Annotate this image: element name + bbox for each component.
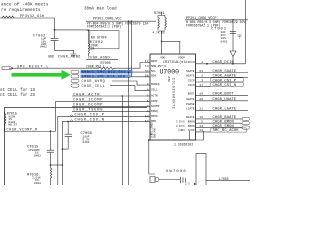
svg-text:PHASE: PHASE <box>186 103 195 106</box>
svg-text:CHGR_OCOMP: CHGR_OCOMP <box>73 104 103 108</box>
svg-text:CHGR_TSENS: CHGR_TSENS <box>73 109 103 113</box>
svg-text:SDA: SDA <box>151 75 156 78</box>
svg-text:CHGR_BOOT: CHGR_BOOT <box>213 93 235 97</box>
svg-text:(GND): (GND) <box>178 129 186 132</box>
svg-text:PP3V42_G3H: PP3V42_G3H <box>20 15 44 19</box>
svg-text:SMC_RESET_L: SMC_RESET_L <box>17 65 49 69</box>
svg-text:13: 13 <box>145 65 149 68</box>
svg-text:SMBUS_SMC_B1A_SDA: SMBUS_SMC_B1A_SDA <box>82 76 126 80</box>
svg-text:BOOT: BOOT <box>188 93 195 96</box>
svg-text:CHGR_BMON: CHGR_BMON <box>213 121 234 125</box>
svg-text:CHGR_DCIN: CHGR_DCIN <box>213 61 234 65</box>
svg-text:ance of -40K meets: ance of -40K meets <box>1 3 49 8</box>
svg-text:3CMB: 3CMB <box>167 76 170 82</box>
svg-text:30mA max load: 30mA max load <box>84 7 117 12</box>
svg-text:CHGR_LGATE: CHGR_LGATE <box>213 108 237 112</box>
svg-text:VDD: VDD <box>160 57 165 60</box>
svg-text:XW7000: XW7000 <box>166 170 187 174</box>
svg-text:0402: 0402 <box>221 40 228 43</box>
svg-text:57: 57 <box>145 70 149 73</box>
svg-text:1%: 1% <box>90 47 94 51</box>
svg-text:CHGR_AGND: CHGR_AGND <box>88 57 110 61</box>
svg-text:CHGR_VCOMP_R: CHGR_VCOMP_R <box>7 129 38 133</box>
svg-text:CHGR_RST_L: CHGR_RST_L <box>86 65 105 69</box>
svg-text:CSIN: CSIN <box>188 84 195 87</box>
svg-text:nt CELL for 2S: nt CELL for 2S <box>0 93 36 98</box>
svg-text:CHGR_CSI_P: CHGR_CSI_P <box>213 79 237 83</box>
svg-text:CSIP: CSIP <box>188 79 195 82</box>
svg-text:SCOMP: SCOMP <box>151 105 160 108</box>
svg-text:SCL: SCL <box>151 70 156 73</box>
svg-text:VDDP: VDDP <box>178 57 185 60</box>
svg-text:ISL6259AHRTZ: ISL6259AHRTZ <box>172 78 176 109</box>
svg-text:BMON: BMON <box>188 121 195 124</box>
svg-text:0402: 0402 <box>40 46 47 49</box>
svg-text:ACTR: ACTR <box>151 94 158 97</box>
svg-text:PROG: PROG <box>151 115 158 118</box>
svg-text:NRST: NRST <box>151 60 158 63</box>
svg-text:CHGR_NVRQ: CHGR_NVRQ <box>82 80 106 84</box>
svg-text:LGATE: LGATE <box>186 108 195 111</box>
svg-text:COMP: COMP <box>151 100 158 103</box>
svg-text:0402: 0402 <box>34 154 41 157</box>
svg-text:3.3V/S: 3.3V/S <box>176 121 185 124</box>
svg-text:9: 9 <box>147 83 149 86</box>
svg-text:CHGR_SGATE: CHGR_SGATE <box>213 70 237 74</box>
svg-text:NO_ST: NO_ST <box>8 124 17 127</box>
svg-text:FREQ: FREQ <box>151 110 158 113</box>
svg-text:CHGR_UGATE: CHGR_UGATE <box>213 98 237 102</box>
svg-text:U7000: U7000 <box>160 69 180 76</box>
svg-text:0402: 0402 <box>83 141 90 144</box>
svg-text:SMBUS_SMC_B1A_SCL: SMBUS_SMC_B1A_SCL <box>82 71 127 75</box>
svg-text:NO STUFF: NO STUFF <box>91 36 107 40</box>
svg-text:L7650: L7650 <box>219 177 229 181</box>
svg-text:56: 56 <box>145 75 149 78</box>
svg-text:0402: 0402 <box>34 182 41 185</box>
svg-text:CHGR_CELL: CHGR_CELL <box>82 85 106 89</box>
svg-text:GND: GND <box>48 55 54 59</box>
svg-text:CHGR_ACTR: CHGR_ACTR <box>73 93 100 97</box>
svg-text:CELL: CELL <box>151 88 158 91</box>
svg-text:SMC_BC_ACOK: SMC_BC_ACOK <box>213 129 240 133</box>
svg-text:1 35363192: 1 35363192 <box>174 142 193 146</box>
svg-text:NVREQ: NVREQ <box>151 83 160 86</box>
svg-text:GND_PAD: GND_PAD <box>154 127 157 138</box>
svg-text:CHGR_CSI_N: CHGR_CSI_N <box>213 84 237 88</box>
svg-text:ACOK: ACOK <box>188 129 195 132</box>
svg-text:12: 12 <box>145 60 149 63</box>
svg-text:CHGR_AGND: CHGR_AGND <box>58 56 81 60</box>
svg-text:SMB_RST_N: SMB_RST_N <box>151 65 166 68</box>
svg-text:8: 8 <box>147 88 149 91</box>
svg-text:4.7K X5: 4.7K X5 <box>153 31 165 34</box>
svg-text:FDMC6679AZ.1 (PBF): FDMC6679AZ.1 (PBF) <box>87 25 122 29</box>
svg-text:AGATE: AGATE <box>186 75 195 78</box>
svg-text:et CELL for 1S: et CELL for 1S <box>0 88 36 93</box>
svg-text:2 X: 2 X <box>185 183 190 186</box>
svg-text:3.3V/S: 3.3V/S <box>176 125 185 128</box>
svg-text:SGATE: SGATE <box>186 70 195 73</box>
svg-text:CHGR_ICOMP: CHGR_ICOMP <box>73 99 103 103</box>
svg-text:BGATE: BGATE <box>186 116 195 119</box>
svg-text:CRITICAL(old: CRITICAL(old <box>163 60 187 65</box>
svg-text:CHGR_CSO_P: CHGR_CSO_P <box>75 114 105 118</box>
svg-text:SMON: SMON <box>188 125 195 128</box>
svg-text:CHGR_AGATE: CHGR_AGATE <box>213 75 237 79</box>
svg-text:UGATE: UGATE <box>186 98 195 101</box>
svg-text:DCIN: DCIN <box>188 61 195 64</box>
svg-text:CHGR_CSO_N: CHGR_CSO_N <box>75 119 105 123</box>
svg-text:re requirements: re requirements <box>1 8 41 13</box>
